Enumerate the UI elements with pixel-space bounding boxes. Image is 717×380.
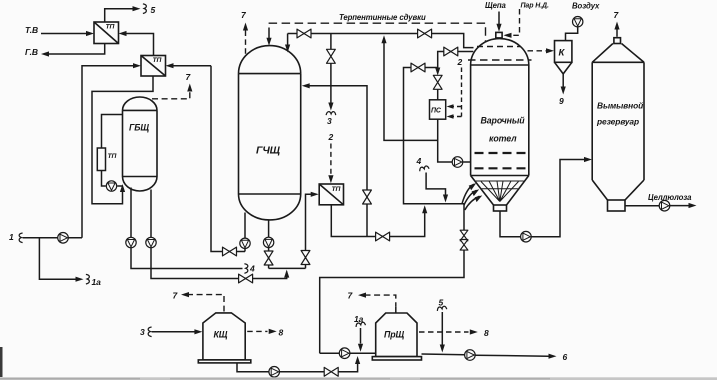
svg-text:Целлюлоза: Целлюлоза: [648, 193, 692, 202]
svg-text:Вымывной: Вымывной: [597, 101, 643, 111]
svg-text:ТП: ТП: [106, 24, 115, 31]
svg-text:Т.В: Т.В: [25, 25, 38, 35]
svg-text:5: 5: [151, 5, 156, 15]
svg-text:3: 3: [327, 116, 332, 126]
svg-text:ГЧЩ: ГЧЩ: [256, 145, 281, 157]
svg-text:2: 2: [457, 57, 463, 67]
svg-text:ТП: ТП: [332, 186, 341, 193]
svg-text:Терпентинные сдувки: Терпентинные сдувки: [339, 13, 426, 22]
svg-text:3: 3: [140, 327, 145, 337]
svg-text:Пар Н.Д.: Пар Н.Д.: [521, 3, 550, 10]
svg-text:8: 8: [484, 328, 489, 338]
svg-text:9: 9: [559, 96, 564, 106]
svg-text:котел: котел: [489, 134, 517, 144]
svg-text:1: 1: [9, 232, 14, 242]
svg-text:ТП: ТП: [108, 153, 117, 160]
svg-text:4: 4: [416, 156, 422, 166]
svg-text:6: 6: [563, 352, 568, 362]
svg-text:резервуар: резервуар: [596, 117, 639, 127]
svg-text:Варочный: Варочный: [481, 116, 526, 126]
svg-text:КЩ: КЩ: [214, 330, 228, 340]
svg-text:1а: 1а: [354, 314, 364, 324]
svg-text:Воздух: Воздух: [572, 2, 600, 11]
svg-text:ТП: ТП: [153, 57, 162, 64]
svg-text:Щепа: Щепа: [485, 1, 507, 10]
svg-text:ПрЩ: ПрЩ: [384, 330, 405, 340]
svg-text:ПС: ПС: [431, 108, 442, 115]
svg-text:1а: 1а: [92, 277, 102, 287]
svg-text:Г.В: Г.В: [25, 47, 38, 57]
svg-text:2: 2: [328, 132, 334, 142]
svg-text:8: 8: [279, 328, 284, 338]
svg-text:5: 5: [439, 298, 444, 308]
svg-text:4: 4: [249, 264, 255, 274]
svg-text:ГБЩ: ГБЩ: [129, 123, 149, 133]
